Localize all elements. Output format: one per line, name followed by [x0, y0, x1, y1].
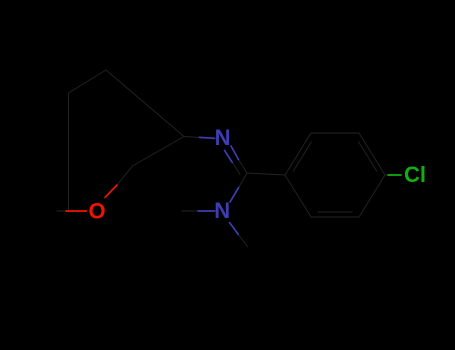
- phenyl inner double bond C3'-C4': [359, 142, 377, 171]
- bond C2-N3 carbon half: [239, 173, 247, 188]
- bond C8a-N1 nitrogen half: [200, 136, 215, 139]
- bond O-C5 carbon half: [117, 166, 133, 185]
- bond C7-C6 (left vertical): [68, 93, 70, 211]
- svg-text:N: N: [214, 198, 230, 223]
- bond C2-N3 nitrogen half: [230, 188, 239, 202]
- phenyl inner double bond C5'-C6': [318, 211, 352, 213]
- svg-text:Cl: Cl: [404, 162, 426, 187]
- bond N3-methyl(left) carbon half: [182, 210, 199, 212]
- bond ethyl CH3-CH2: [57, 210, 68, 212]
- bond N1=C2 inner line nitrogen half: [225, 150, 233, 162]
- phenyl inner double bond C1'-C2': [293, 142, 311, 171]
- bond C4'-Cl chlorine half: [388, 174, 401, 176]
- bond C8-C7 (apex to left): [69, 70, 107, 93]
- bond O-C5 oxygen half: [105, 185, 117, 198]
- bond CH2-O oxygen half: [66, 210, 87, 212]
- bond C8-C8a (long upper diagonal): [106, 70, 184, 137]
- phenyl bond C6'-C1': [285, 175, 311, 217]
- bond C5-C8a ring closure: [133, 137, 185, 167]
- phenyl bond C3'-C4': [359, 133, 385, 175]
- phenyl bond C2'-C3': [311, 132, 359, 134]
- bond C4'-Cl carbon half: [385, 174, 388, 176]
- svg-text:O: O: [88, 198, 105, 223]
- phenyl bond C4'-C5': [359, 175, 385, 217]
- bond N3-methyl(lower) carbon half: [238, 234, 247, 246]
- bond N3-methyl(left) nitrogen half: [198, 210, 215, 212]
- bond N1=C2 main line nitrogen half: [231, 146, 239, 160]
- bond C2-phenyl ipso: [247, 173, 285, 175]
- phenyl bond C1'-C2': [285, 133, 311, 175]
- bond N1=C2 main line carbon half: [239, 160, 248, 174]
- phenyl bond C5'-C6': [311, 216, 359, 218]
- bond N1=C2 inner line carbon half: [232, 162, 240, 174]
- bond N3-methyl(lower) nitrogen half: [230, 223, 239, 235]
- svg-text:N: N: [215, 125, 231, 150]
- bond C8a-N1 carbon half: [184, 136, 200, 139]
